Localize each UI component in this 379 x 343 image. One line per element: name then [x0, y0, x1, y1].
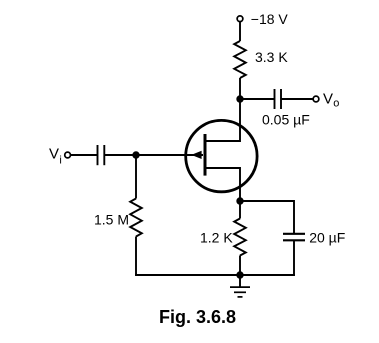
- wire R 1.5M to bottom rail: [135, 237, 137, 276]
- wire resistor to drain node: [239, 78, 241, 142]
- svg-text:o: o: [333, 98, 339, 110]
- channel bar: [204, 134, 207, 176]
- gate arrow: [191, 151, 201, 159]
- svg-text:0.05 µF: 0.05 µF: [262, 112, 310, 128]
- capacitor C 0.05uF: [274, 89, 276, 109]
- ground: [239, 275, 241, 287]
- wire source node to bypass capacitor: [240, 201, 294, 233]
- node source junction: [236, 197, 243, 204]
- wire capacitor to bottom rail: [293, 240, 295, 276]
- capacitor C input: [97, 145, 99, 165]
- wire drain node to output capacitor: [240, 98, 274, 100]
- wire capacitor to Vo terminal: [282, 98, 314, 100]
- terminal Vi: [65, 152, 71, 158]
- svg-text:V: V: [49, 145, 59, 162]
- svg-text:Fig. 3.6.8: Fig. 3.6.8: [159, 307, 236, 327]
- svg-text:20 µF: 20 µF: [309, 230, 345, 246]
- transistor Q1 JFET: [186, 120, 257, 191]
- node drain junction: [236, 95, 243, 102]
- wire supply to resistor: [239, 22, 241, 41]
- source lead: [207, 168, 241, 201]
- bottom rail wire: [135, 274, 295, 276]
- svg-text:1.5 M: 1.5 M: [94, 211, 129, 227]
- terminal Vo: [313, 96, 319, 102]
- svg-text:3.3 K: 3.3 K: [255, 49, 288, 65]
- node bottom junction: [236, 271, 243, 278]
- svg-text:1.2 K: 1.2 K: [200, 229, 233, 245]
- resistor R 3.3K: [234, 41, 246, 78]
- wire capacitor to gate node: [105, 154, 203, 156]
- node gate junction: [132, 151, 139, 158]
- resistor R 1.5M: [130, 199, 142, 237]
- svg-text:V: V: [323, 91, 333, 108]
- wire source node to R 1.2K: [239, 201, 241, 219]
- wire Vi to input capacitor: [71, 154, 97, 156]
- drain lead: [207, 140, 241, 142]
- capacitor C 20uF: [283, 233, 305, 235]
- supply terminal -18V: [237, 16, 243, 22]
- wire R 1.2K to bottom node: [239, 256, 241, 276]
- svg-text:i: i: [59, 154, 61, 166]
- resistor R 1.2K: [234, 219, 246, 256]
- svg-text:−18 V: −18 V: [251, 11, 289, 27]
- wire gate node down to R 1.5M: [135, 155, 137, 199]
